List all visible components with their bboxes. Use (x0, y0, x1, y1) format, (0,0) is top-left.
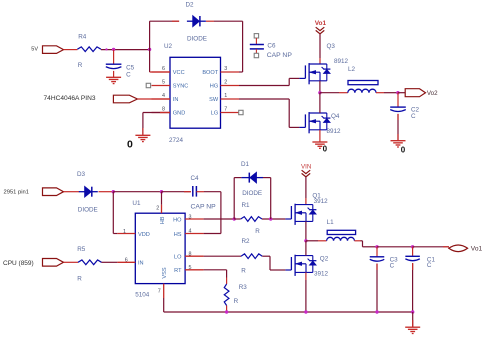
svg-text:DIODE: DIODE (78, 207, 98, 214)
svg-text:74HC4046A PIN3: 74HC4046A PIN3 (44, 95, 96, 102)
svg-text:L2: L2 (348, 66, 356, 73)
svg-text:6: 6 (162, 66, 165, 72)
svg-text:Vo2: Vo2 (427, 90, 438, 97)
svg-text:Vo1: Vo1 (315, 20, 327, 27)
svg-text:C: C (390, 263, 395, 270)
svg-text:C6: C6 (267, 43, 276, 50)
svg-text:D2: D2 (186, 1, 195, 8)
svg-text:Q3: Q3 (327, 43, 336, 50)
svg-text:CAP NP: CAP NP (191, 203, 217, 210)
svg-text:1: 1 (224, 93, 227, 99)
svg-text:2: 2 (156, 205, 159, 211)
svg-text:7: 7 (224, 106, 227, 112)
svg-text:0: 0 (401, 146, 406, 155)
svg-text:CPU (859): CPU (859) (3, 260, 34, 267)
svg-text:HB: HB (160, 216, 166, 224)
svg-text:3912: 3912 (314, 270, 329, 277)
svg-text:VSS: VSS (162, 267, 168, 278)
svg-text:4: 4 (189, 229, 192, 235)
svg-text:GND: GND (173, 111, 185, 117)
svg-text:HG: HG (210, 84, 218, 90)
svg-text:R3: R3 (239, 284, 248, 291)
svg-text:C4: C4 (191, 175, 200, 182)
svg-text:8912: 8912 (327, 128, 342, 135)
svg-text:R: R (255, 228, 260, 235)
svg-text:6: 6 (125, 258, 128, 264)
svg-text:VCC: VCC (173, 70, 185, 76)
svg-text:R: R (241, 268, 246, 275)
svg-text:U2: U2 (164, 43, 173, 50)
svg-text:4: 4 (162, 93, 165, 99)
svg-text:VDD: VDD (138, 232, 150, 238)
svg-text:C: C (126, 71, 131, 78)
svg-text:2: 2 (224, 79, 227, 85)
svg-text:CAP NP: CAP NP (267, 52, 293, 59)
svg-text:0: 0 (127, 138, 133, 150)
svg-text:BOOT: BOOT (202, 70, 218, 76)
svg-text:DIODE: DIODE (187, 35, 207, 42)
svg-text:1: 1 (123, 229, 126, 235)
svg-text:8: 8 (189, 251, 192, 257)
svg-text:0: 0 (323, 145, 328, 154)
svg-text:HO: HO (173, 217, 182, 223)
svg-text:SYNC: SYNC (173, 84, 189, 90)
svg-text:5: 5 (189, 265, 192, 271)
svg-text:U1: U1 (132, 200, 141, 207)
svg-text:R5: R5 (77, 246, 86, 253)
svg-text:Vo1: Vo1 (471, 246, 483, 253)
svg-text:R1: R1 (242, 202, 251, 209)
svg-text:VIN: VIN (301, 164, 311, 171)
svg-text:LO: LO (174, 255, 182, 261)
svg-text:3: 3 (189, 214, 192, 220)
svg-text:C: C (427, 262, 432, 269)
svg-text:Q4: Q4 (331, 113, 340, 120)
svg-text:IN: IN (138, 261, 144, 267)
svg-text:D3: D3 (77, 171, 86, 178)
svg-text:8: 8 (162, 107, 165, 113)
svg-text:C: C (411, 113, 416, 120)
svg-text:8912: 8912 (334, 58, 349, 65)
svg-text:7: 7 (158, 289, 161, 295)
svg-text:R2: R2 (242, 238, 251, 245)
svg-text:RT: RT (174, 268, 182, 274)
svg-text:Q2: Q2 (320, 256, 329, 263)
svg-text:DIODE: DIODE (242, 190, 262, 197)
svg-text:3912: 3912 (314, 198, 329, 205)
svg-text:5V: 5V (31, 46, 38, 52)
svg-text:L1: L1 (327, 219, 335, 226)
svg-text:LG: LG (211, 111, 218, 117)
svg-text:D1: D1 (241, 161, 250, 168)
svg-text:R4: R4 (78, 34, 87, 41)
svg-text:IN: IN (173, 97, 179, 103)
svg-text:5: 5 (162, 80, 165, 86)
svg-text:R: R (234, 298, 239, 305)
svg-text:R: R (77, 275, 82, 282)
svg-text:SW: SW (209, 97, 219, 103)
svg-text:HS: HS (174, 232, 182, 238)
svg-text:5104: 5104 (135, 291, 150, 298)
svg-text:3: 3 (224, 66, 227, 72)
svg-text:2951 pin1: 2951 pin1 (4, 189, 29, 195)
svg-text:2724: 2724 (169, 137, 184, 144)
svg-text:R: R (78, 62, 83, 69)
